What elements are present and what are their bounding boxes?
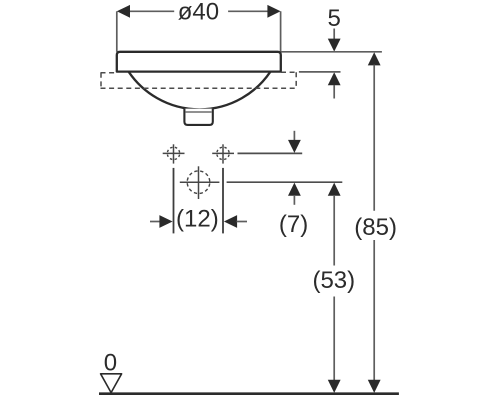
dashed countertop box bottom edge [101,87,297,89]
dim (7) up arrow [288,183,301,196]
up arrow of dim 5 [328,72,341,85]
dim (7) down arrow [288,140,301,153]
dashed countertop box top-left segment [101,72,117,74]
faucet hole left dashed circle [167,147,179,159]
extension line below faucet hole right [222,168,224,234]
faucet hole right dashed circle [217,147,229,159]
drain outlet vertical centerline [198,166,200,199]
dashed countertop box left edge [100,73,102,89]
floor line [99,392,399,395]
faucet hole cross left: vertical centerline [173,144,175,163]
extension line rim bottom level [299,71,341,73]
basin rim [117,52,281,72]
faucet hole cross left: horizontal centerline [163,152,185,154]
svg-text:(12): (12) [176,205,219,232]
drain outlet horizontal centerline [180,181,220,183]
stem below for dim 5 [333,85,335,99]
drain fitting [184,109,212,125]
dashed countertop box right edge [295,72,297,88]
dashed countertop box top-right segment [281,71,296,73]
dim (85) line lower segment [373,240,375,380]
dim (12) left arrow [159,215,172,228]
drain outlet dashed circle [187,171,210,194]
dim (53) line upper segment [333,195,335,266]
extension line left for ø40 [116,11,118,52]
extension line rim top level [281,51,382,53]
drain flange line [186,111,212,113]
svg-text:0: 0 [104,350,117,377]
stem above rim-top for dim 5 [333,29,335,42]
extension line below faucet hole left [173,168,175,234]
dim (12) right tail [237,221,248,223]
dimension line ø40 (top) [129,10,268,12]
dim (53) line lower segment [333,297,335,381]
dim (85) line upper segment [373,65,375,211]
svg-text:(7): (7) [279,211,308,238]
svg-text:5: 5 [328,5,341,32]
dim (7) upper stem [293,131,295,141]
down arrow of dim 5 [328,39,341,52]
dim (85) up arrow [368,52,381,65]
dim (7) lower stem [293,195,295,205]
svg-text:ø40: ø40 [178,0,219,26]
dim (12) right arrow [224,215,237,228]
extension line right for ø40 [280,11,282,52]
faucet hole cross right: horizontal centerline [212,152,234,154]
dim (85) down arrow [368,380,381,393]
faucet hole cross right: vertical centerline [222,144,224,163]
floor level triangle symbol [101,374,122,393]
svg-text:(53): (53) [312,267,355,294]
arrow right of ø40 [267,5,280,18]
dim (53) up arrow [328,183,341,196]
dim (12) left tail [150,221,160,223]
svg-text:(85): (85) [354,214,397,241]
basin bowl (circular arc) [129,72,271,110]
arrow left of ø40 [117,5,130,18]
extension line drain level to (53) [227,181,343,183]
extension line faucet level to (7) [238,152,303,154]
dim (53) down arrow [328,380,341,393]
